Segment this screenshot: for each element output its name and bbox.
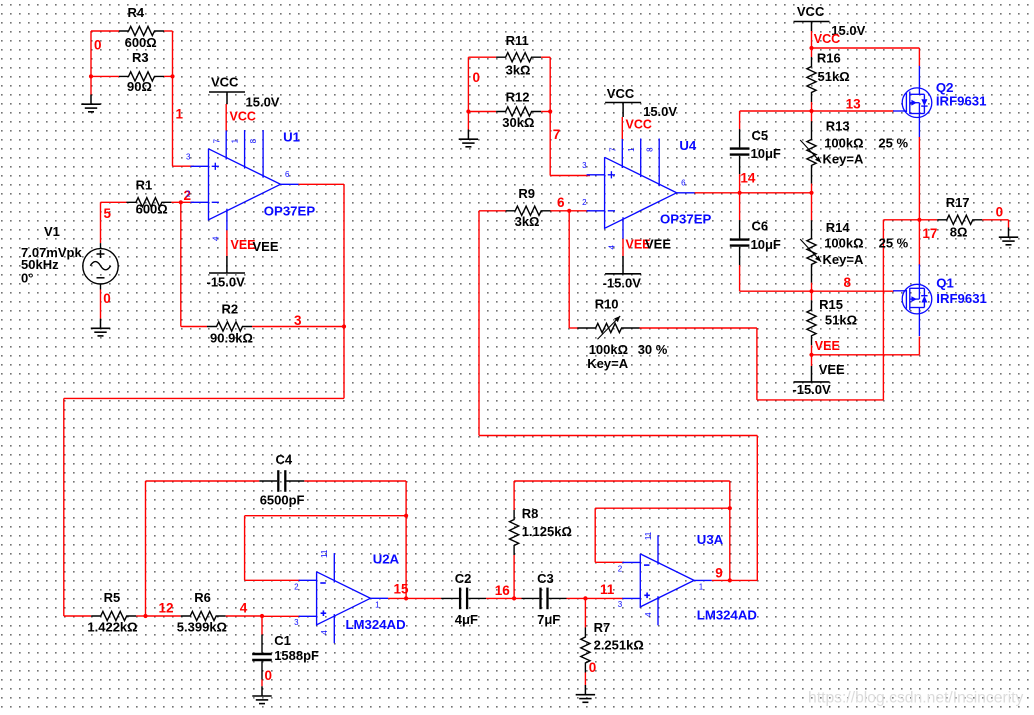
wire C2 to node 16: [486, 597, 521, 599]
power VEE bar U4: [605, 273, 641, 275]
svg-text:0: 0: [589, 660, 597, 675]
op-amp U4 pin 1 number: [627, 147, 636, 152]
node label 2: [184, 188, 192, 203]
wire R1 right to node 2: [171, 201, 194, 203]
junction node 16: [512, 596, 516, 600]
op-amp U1 top pin 8: [262, 130, 264, 178]
label R5: [104, 590, 121, 605]
value R14 100kohm: [824, 236, 863, 251]
source V1 top lead: [100, 243, 102, 249]
wire node 0 vertical R11R12: [467, 57, 469, 111]
svg-text:0: 0: [103, 291, 111, 306]
wire R9 to node 6: [550, 210, 590, 212]
op-amp U1 pin 3 number: [186, 152, 191, 161]
resistor R1: [126, 198, 171, 207]
op-amp U2A pin 3 number: [294, 618, 299, 627]
svg-text:11: 11: [644, 531, 653, 540]
wire node 12 up: [145, 481, 147, 616]
wire C5 top stub: [739, 111, 741, 129]
wire R3 right to node 1 rail: [164, 75, 173, 77]
ground R17: [999, 228, 1018, 245]
svg-text:2: 2: [618, 564, 623, 573]
op-amp U1 pin 4 number: [212, 236, 221, 241]
svg-text:-15.0V: -15.0V: [792, 382, 831, 397]
value VCC 15.0V U4: [643, 104, 677, 119]
value R2 90.9kohm: [210, 331, 253, 346]
wire node 3 rail vertical: [343, 184, 345, 326]
wire VCC node to Q2 rail: [812, 47, 920, 49]
wire C1 to ground: [261, 680, 263, 687]
ground node 0 upper-left: [81, 95, 100, 112]
value V1 phase: [21, 270, 33, 285]
wire U4 VCC stem: [621, 103, 624, 140]
net label VCC right red: [814, 32, 840, 46]
wire VCC stem right: [811, 22, 813, 49]
label U1: [283, 130, 300, 145]
junction VEE node: [809, 353, 813, 357]
svg-text:100kΩ: 100kΩ: [824, 236, 863, 251]
label U4: [679, 138, 697, 153]
svg-text:R16: R16: [817, 50, 841, 65]
svg-text:VCC: VCC: [626, 118, 652, 132]
op-amp U1 pin 2 number: [186, 190, 191, 199]
op-amp U1 body: [209, 149, 281, 220]
junction node 17: [917, 218, 921, 222]
source V1 plus sign: [97, 250, 105, 258]
node label 0 output: [996, 204, 1004, 219]
node label 11: [600, 582, 615, 597]
op-amp U3A pin 4 number: [644, 612, 653, 617]
junction node 11: [583, 596, 587, 600]
label C1: [274, 633, 291, 648]
node label 7: [553, 127, 561, 142]
power VCC bar U1: [209, 91, 245, 93]
label Q2 type IRF9631: [936, 94, 987, 109]
transistor Q2 gate lead: [893, 110, 906, 112]
resistor R17: [937, 215, 982, 224]
junction node 9: [728, 578, 732, 582]
op-amp U3A non-inverting input pin 3: [622, 593, 650, 599]
ground R11R12: [459, 130, 478, 147]
svg-text:3kΩ: 3kΩ: [515, 214, 540, 229]
svg-text:1: 1: [375, 601, 380, 610]
svg-text:14: 14: [740, 171, 756, 186]
svg-text:R9: R9: [518, 186, 535, 201]
op-amp U4 non-inverting input pin 3: [587, 171, 615, 178]
label Q2: [936, 80, 954, 95]
op-amp U4 body: [605, 157, 677, 228]
wire U2A inverting loop vertical: [244, 516, 246, 581]
svg-text:6: 6: [557, 195, 565, 210]
svg-text:7: 7: [608, 147, 617, 152]
wire node 1 rail: [172, 31, 174, 166]
label VEE U1 black: [253, 239, 279, 254]
transistor Q1 channel bar: [909, 288, 911, 310]
svg-text:3: 3: [294, 618, 299, 627]
wire node 1 to U1 pin 3: [173, 165, 195, 167]
wire R8 top loop horizontal: [514, 480, 730, 482]
wire node 17 left horizontal: [883, 219, 919, 221]
label R13: [826, 119, 850, 134]
net label VEE U4 red: [626, 238, 651, 252]
svg-text:10μF: 10μF: [751, 146, 781, 161]
node label 1: [176, 107, 184, 122]
svg-text:5.399kΩ: 5.399kΩ: [177, 620, 227, 635]
transistor Q1 gate lead: [893, 290, 906, 292]
svg-text:R4: R4: [128, 5, 145, 20]
junction node 7: [548, 109, 552, 113]
svg-text:15: 15: [394, 581, 410, 596]
junction node 3: [342, 324, 346, 328]
label R11: [506, 33, 529, 48]
value R15 51kohm: [825, 313, 857, 328]
svg-text:2: 2: [294, 582, 299, 591]
wire node 0 vertical: [90, 31, 92, 76]
svg-text:0: 0: [94, 38, 102, 53]
label C5: [752, 128, 769, 143]
net label VCC U4 red: [626, 118, 652, 132]
svg-text:4: 4: [320, 630, 329, 635]
svg-text:1.125kΩ: 1.125kΩ: [522, 524, 572, 539]
transistor Q2 body circle: [902, 88, 932, 118]
op-amp U4 pin 4 number: [608, 245, 617, 250]
value C1 1588pF: [274, 648, 319, 663]
op-amp U1 inverting input pin 2: [191, 201, 219, 203]
label U2A: [373, 552, 400, 567]
wire R8 top: [513, 481, 515, 510]
wire node 4 down to C1: [261, 616, 263, 635]
wire V1 top to node 5 corner: [101, 202, 127, 243]
value C2 4uF: [455, 612, 478, 627]
svg-text:7μF: 7μF: [537, 612, 560, 627]
wire U2A inverting loop horizontal: [245, 515, 407, 517]
node label 13: [846, 97, 862, 112]
op-amp U3A inverting input pin 2: [622, 562, 649, 565]
svg-text:11: 11: [600, 582, 615, 597]
wire U2A output to node 15: [388, 597, 441, 599]
wire U2A inverting loop to pin 2: [245, 579, 300, 581]
wire to R9 left: [479, 210, 506, 212]
label C6: [752, 219, 769, 234]
svg-text:4: 4: [212, 236, 221, 241]
wire node 7 rail: [549, 57, 551, 175]
node label 14: [740, 171, 756, 186]
node label 0 below C1: [265, 668, 273, 683]
resistor R4: [119, 26, 164, 35]
resistor R10 potentiometer: [577, 323, 639, 332]
wire R10 right: [639, 327, 757, 329]
svg-text:10μF: 10μF: [751, 237, 781, 252]
junction node 6: [567, 209, 571, 213]
label R2: [222, 301, 239, 316]
potentiometer R14 arrow: [800, 239, 821, 262]
value R14 percent: [879, 236, 909, 251]
wire node 0 to R3 left: [91, 75, 119, 77]
svg-text:IRF9631: IRF9631: [936, 291, 987, 306]
power VCC bar U4: [605, 102, 641, 104]
resistor R5: [91, 611, 136, 620]
wire U3A inverting loop horizontal: [595, 507, 730, 509]
op-amp U4 top pin 7: [621, 139, 623, 169]
svg-text:VCC: VCC: [814, 32, 840, 46]
svg-text:90Ω: 90Ω: [127, 79, 152, 94]
op-amp U1 negative supply pin 4: [226, 209, 228, 231]
transistor Q2 drain lead: [918, 114, 920, 138]
value R3 90ohm: [127, 79, 152, 94]
label R16: [817, 50, 841, 65]
svg-text:15.0V: 15.0V: [246, 95, 280, 110]
label V1: [44, 224, 60, 239]
svg-text:0: 0: [265, 668, 273, 683]
op-amp U4 pin 2 number: [582, 198, 587, 207]
op-amp U3A pin 1 number: [699, 583, 704, 592]
svg-text:VCC: VCC: [797, 4, 825, 19]
svg-text:0: 0: [473, 70, 481, 85]
value V1 frequency: [21, 257, 59, 272]
junction node 9 upper: [728, 506, 732, 510]
svg-text:https://blog.csdn.net/Insincer: https://blog.csdn.net/Insincerity: [808, 690, 1024, 707]
svg-text:600Ω: 600Ω: [125, 35, 157, 50]
power VCC bar right: [794, 21, 830, 23]
wire U4 VEE stem: [622, 239, 624, 274]
wire C4 right to node 15 rail: [304, 480, 406, 482]
potentiometer R13 arrow: [800, 140, 821, 163]
transistor Q1 body circle: [902, 284, 932, 314]
source V1 body circle: [83, 249, 118, 284]
svg-text:2.251kΩ: 2.251kΩ: [594, 637, 644, 652]
svg-text:U3A: U3A: [697, 532, 724, 547]
svg-text:90.9kΩ: 90.9kΩ: [210, 331, 253, 346]
svg-text:11: 11: [320, 549, 329, 558]
value C6 10uF: [751, 237, 781, 252]
op-amp U4 negative supply pin 4: [622, 217, 624, 239]
label U3A: [697, 532, 724, 547]
label VCC right black: [797, 4, 825, 19]
wire node 2 corner to R2: [181, 326, 207, 328]
svg-text:Key=A: Key=A: [587, 356, 628, 371]
value R14 key: [823, 252, 864, 267]
wire R14 top stub: [811, 193, 813, 221]
junction node 15 upper: [404, 514, 408, 518]
wire long vertical left side: [63, 398, 65, 616]
label R9: [518, 186, 535, 201]
transistor Q2 source stub: [910, 93, 925, 95]
ground V1: [91, 319, 110, 336]
wire VCC to R16: [811, 48, 813, 57]
svg-text:4: 4: [240, 601, 248, 616]
label U4 type OP37EP: [660, 211, 712, 226]
op-amp U4 top pin 8: [658, 139, 660, 187]
value -15.0V U1: [207, 274, 246, 289]
wire node 0 ground stub: [90, 76, 92, 94]
resistor R14 potentiometer: [807, 220, 816, 282]
wire node 7 to U4 pin 3: [550, 175, 590, 177]
svg-text:0: 0: [996, 204, 1004, 219]
wire V1 bottom to ground: [100, 290, 102, 319]
svg-text:OP37EP: OP37EP: [660, 211, 712, 226]
label VEE right black: [819, 362, 845, 377]
svg-text:IRF9631: IRF9631: [936, 94, 987, 109]
net label VEE U1 red: [231, 238, 256, 252]
op-amp U1 output pin 6: [281, 183, 300, 185]
wire node 14 horizontal: [740, 192, 812, 194]
op-amp U2A positive supply pin 11: [333, 553, 335, 582]
svg-text:4: 4: [644, 612, 653, 617]
svg-text:100kΩ: 100kΩ: [589, 342, 628, 357]
wire Q2 drain to node 17: [918, 137, 920, 220]
wire R7 bottom to ground: [584, 673, 586, 686]
svg-text:-15.0V: -15.0V: [603, 276, 642, 291]
svg-text:R7: R7: [594, 620, 611, 635]
value C4 6500pF: [260, 493, 305, 508]
label R6: [194, 590, 211, 605]
wire node 9 rail to top: [756, 436, 758, 581]
op-amp U3A negative supply pin 4: [657, 596, 659, 625]
wire U1 VCC stem: [225, 92, 228, 131]
wire R11 right to node 7 rail: [541, 56, 550, 58]
op-amp U2A pin 1 number: [375, 601, 380, 610]
label R17: [946, 195, 970, 210]
svg-text:VEE: VEE: [645, 237, 671, 252]
wire R15 top stub: [811, 291, 813, 300]
junction node 14 right: [809, 191, 813, 195]
power VEE bar right: [794, 381, 830, 383]
op-amp U4 pin 8 number: [645, 147, 654, 152]
value R13 key: [823, 151, 864, 166]
source V1 bottom lead: [100, 284, 102, 290]
label R14: [826, 220, 851, 235]
capacitor C1: [252, 635, 272, 680]
value R7 2.251kohm: [594, 637, 644, 652]
wire R15 bottom stub: [811, 345, 813, 355]
svg-text:3kΩ: 3kΩ: [506, 63, 531, 78]
op-amp U3A output pin 1: [694, 579, 712, 581]
svg-text:7: 7: [553, 127, 561, 142]
ground C1: [252, 686, 271, 703]
wire R13 bottom stub: [811, 184, 813, 193]
node label 5: [104, 206, 112, 221]
label C4: [276, 452, 293, 467]
value -15.0V U4: [603, 276, 642, 291]
svg-text:4: 4: [608, 245, 617, 250]
svg-text:1: 1: [627, 147, 636, 152]
wire node 0 to R11 left: [468, 56, 496, 58]
wire C3 to node 11: [567, 597, 624, 599]
label R10: [595, 297, 619, 312]
node label 8: [844, 275, 852, 290]
wire node 8 horizontal: [740, 290, 894, 292]
svg-text:VEE: VEE: [819, 362, 845, 377]
wire R14 bottom stub: [811, 283, 813, 292]
transistor Q2 channel bar: [909, 92, 911, 114]
svg-text:U2A: U2A: [373, 552, 400, 567]
value R5 1.422kohm: [87, 620, 137, 635]
wire node 0 ground stub R11R12: [467, 112, 469, 130]
svg-text:C4: C4: [276, 452, 293, 467]
transistor Q1 drain lead: [918, 264, 920, 288]
value R10 percent: [638, 342, 668, 357]
transistor Q1 drain stub: [910, 287, 925, 289]
label C3: [537, 571, 554, 586]
wire U3A inverting loop vertical: [594, 508, 596, 562]
label C2: [455, 571, 472, 586]
svg-text:0°: 0°: [21, 270, 33, 285]
transistor Q1 gate bar: [905, 290, 907, 309]
label U1 type OP37EP: [264, 204, 316, 219]
node label 9: [715, 565, 723, 580]
svg-text:R11: R11: [506, 33, 529, 48]
svg-text:17: 17: [922, 226, 937, 241]
svg-text:600Ω: 600Ω: [136, 202, 168, 217]
svg-text:C6: C6: [752, 219, 769, 234]
svg-text:R14: R14: [826, 220, 851, 235]
svg-text:V1: V1: [44, 224, 60, 239]
svg-text:8Ω: 8Ω: [950, 224, 968, 239]
resistor R2: [207, 322, 252, 331]
value R6 5.399kohm: [177, 620, 227, 635]
svg-text:16: 16: [495, 583, 511, 598]
svg-text:VCC: VCC: [211, 75, 239, 90]
wire U3A inverting loop to pin 2: [595, 561, 624, 563]
resistor R9: [506, 206, 551, 215]
wire node 6 down to R10: [568, 211, 570, 328]
svg-text:LM324AD: LM324AD: [697, 607, 757, 622]
svg-text:30 %: 30 %: [638, 342, 668, 357]
wire node 2 down: [180, 202, 182, 326]
op-amp U2A output pin 1: [370, 597, 388, 599]
junction node 4: [260, 614, 264, 618]
svg-text:C2: C2: [455, 571, 472, 586]
svg-text:4μF: 4μF: [455, 612, 478, 627]
capacitor C6: [730, 220, 750, 265]
svg-text:25 %: 25 %: [879, 236, 909, 251]
label VCC U1 black: [211, 75, 239, 90]
svg-text:6: 6: [681, 179, 686, 188]
svg-text:R10: R10: [595, 297, 619, 312]
node label 4: [240, 601, 248, 616]
op-amp U2A pin 11 number: [320, 549, 329, 558]
wire VEE node to Q1 rail: [812, 354, 920, 356]
node label 17: [922, 226, 937, 241]
op-amp U3A pin 11 number: [644, 531, 653, 540]
wire R16 to node 13: [811, 102, 813, 111]
junction node 2: [179, 200, 183, 204]
svg-text:12: 12: [159, 601, 174, 616]
label U3A type LM324AD: [697, 607, 757, 622]
value R9 3kohm: [515, 214, 540, 229]
transistor Q1 body arrow: [910, 288, 920, 302]
svg-text:VCC: VCC: [607, 86, 635, 101]
wire to R5 left: [64, 615, 91, 617]
resistor R3: [119, 72, 164, 81]
svg-text:C3: C3: [537, 571, 554, 586]
wire R2 right to node 3: [252, 326, 344, 328]
svg-text:7: 7: [212, 138, 221, 143]
resistor R12: [496, 107, 541, 116]
svg-text:13: 13: [846, 97, 862, 112]
wire R6 to node 4: [226, 615, 262, 617]
label R4: [128, 5, 145, 20]
wire R4 right to node 1 rail: [164, 30, 173, 32]
resistor R16: [807, 57, 816, 102]
svg-text:R12: R12: [506, 90, 530, 105]
value VCC 15.0V right: [831, 23, 865, 38]
label R7: [594, 620, 611, 635]
label Q1 type IRF9631: [936, 291, 987, 306]
wire node 17 to Q1: [918, 220, 920, 266]
node label 15: [394, 581, 410, 596]
op-amp U3A positive supply pin 11: [657, 535, 659, 564]
